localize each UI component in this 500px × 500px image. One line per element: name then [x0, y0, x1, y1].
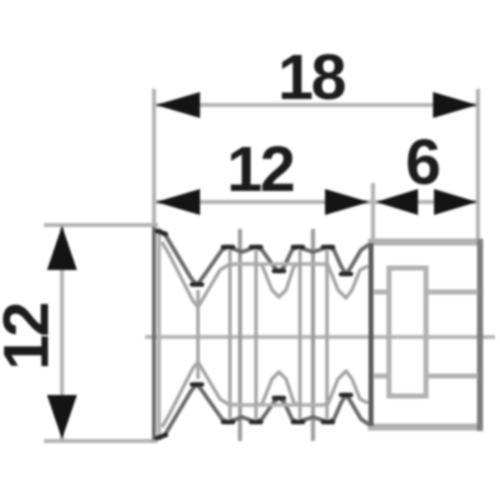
- fitting block left edge: [369, 243, 374, 426]
- dimension line vertical 12 (x=62): [60, 226, 64, 439]
- arrow 12 right: [325, 189, 369, 215]
- fitting block top edge: [368, 239, 483, 246]
- fitting inner channel rectangle: [389, 268, 426, 396]
- svg-text:18: 18: [278, 41, 345, 113]
- arrow vertical top: [47, 226, 77, 270]
- bellows inner profile bottom: [162, 362, 368, 427]
- extension line bottom-left horizontal (y=441): [44, 439, 158, 443]
- fold axis line 2 (x=313): [311, 229, 315, 441]
- arrow 12 left: [156, 189, 200, 215]
- bellows inner profile top: [162, 242, 368, 307]
- svg-text:12: 12: [227, 133, 294, 205]
- arrow vertical bottom: [47, 395, 77, 439]
- fold edge vertical x=327: [325, 250, 329, 419]
- svg-text:12: 12: [0, 303, 62, 370]
- svg-text:6: 6: [405, 126, 439, 198]
- fitting block right edge: [477, 239, 483, 431]
- fold edge vertical x=198: [196, 290, 200, 379]
- suction cup lip dark edge: [152, 227, 156, 440]
- arrow 6 left outside: [376, 189, 418, 215]
- extension line middle (x=373): [371, 183, 375, 244]
- arrow 6 right: [434, 189, 477, 215]
- extension line left (x=154): [152, 89, 156, 441]
- dark accents at wave extremes bottom: [157, 385, 351, 439]
- arrow 18 right: [433, 92, 477, 118]
- bellows outer profile top: [159, 230, 371, 285]
- dimension line 12/6 (y=202): [154, 200, 478, 204]
- fitting port line lower: [374, 374, 478, 379]
- arrow 18 left: [156, 92, 200, 118]
- fitting port line upper: [374, 290, 478, 295]
- fold edge vertical x=256: [254, 250, 258, 419]
- fitting block bottom edge: [368, 424, 483, 431]
- bellows waist line top (y=264): [230, 262, 328, 266]
- bellows outer profile bottom: [159, 384, 371, 439]
- dark accents at wave extremes top: [157, 231, 351, 285]
- fold axis line 1 (x=240): [238, 229, 242, 441]
- extension line top-left horizontal (y=225): [44, 223, 158, 227]
- suction cup lip inner edge: [157, 228, 161, 440]
- extension line right (x=478): [476, 89, 480, 242]
- centerline (y=337): [145, 335, 495, 339]
- fold edge vertical x=230: [228, 250, 232, 419]
- dimension line 18 (y=105): [154, 103, 478, 107]
- fold edge vertical x=300: [298, 250, 302, 419]
- bellows waist line bottom (y=405): [230, 403, 328, 407]
